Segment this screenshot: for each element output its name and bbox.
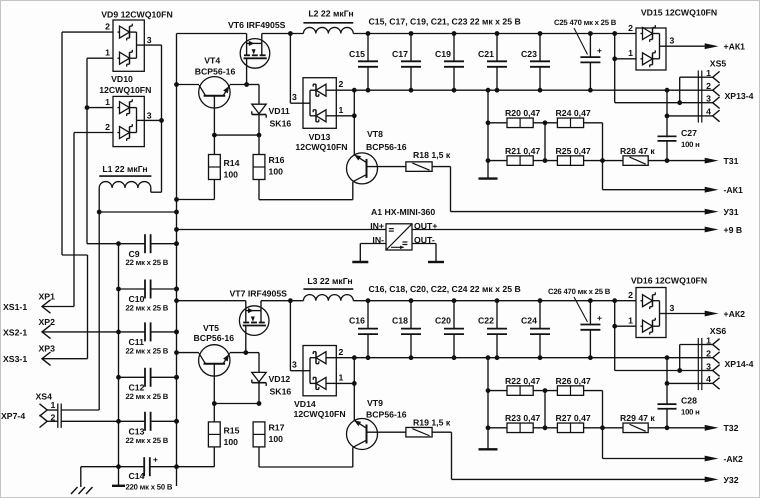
wire VD9/VD10 pin3 to L1 right	[144, 44, 161, 46]
svg-text:C15, C17, C19, C21, C23 22 мк: C15, C17, C19, C21, C23 22 мк x 25 В	[369, 17, 521, 27]
svg-text:3: 3	[706, 94, 711, 104]
capacitor C23	[539, 34, 541, 62]
svg-text:+: +	[597, 313, 602, 323]
svg-text:1: 1	[51, 400, 56, 410]
mid rail (top section minus)	[336, 89, 702, 91]
diode VD11 SK16	[258, 85, 260, 105]
chassis ground	[81, 466, 119, 468]
svg-text:1: 1	[628, 48, 633, 58]
transistor VT9 BCP56-16	[347, 419, 378, 450]
wire R24/R25 to -AK1	[602, 123, 604, 190]
svg-text:XS1-1: XS1-1	[3, 302, 27, 312]
wire VD16 pin1 net	[612, 298, 617, 303]
svg-text:+: +	[153, 454, 158, 464]
svg-text:3: 3	[147, 35, 152, 45]
svg-text:1: 1	[706, 335, 711, 345]
wire bottom rail to VD16	[353, 300, 636, 302]
svg-text:XS6: XS6	[710, 326, 727, 336]
svg-text:1: 1	[628, 316, 633, 326]
wire VT6 drain to L2	[262, 33, 304, 35]
svg-text:2: 2	[339, 347, 344, 357]
wire VT6 gate	[246, 58, 248, 84]
module A1 HX-MINI-360	[386, 224, 412, 250]
wire VD9 pin2 to XP3 net	[62, 31, 113, 33]
capacitor C18	[410, 301, 412, 329]
wire R14 bottom to bus	[213, 180, 215, 200]
capacitor C15	[367, 34, 369, 62]
resistor R15 100	[208, 422, 220, 447]
svg-text:У32: У32	[724, 475, 739, 485]
svg-text:R15: R15	[224, 426, 240, 436]
svg-text:C25 470 мк x 25 В: C25 470 мк x 25 В	[554, 18, 617, 27]
diode pair VD13 12CWQ10FN	[289, 34, 291, 104]
svg-text:VD15 12CWQ10FN: VD15 12CWQ10FN	[641, 8, 717, 18]
wire IN- to ground	[360, 243, 386, 245]
capacitor C28 100n	[658, 403, 677, 405]
svg-text:4: 4	[706, 107, 711, 117]
svg-text:R16: R16	[269, 155, 285, 165]
svg-text:XP13-4: XP13-4	[725, 91, 754, 101]
capacitor C21	[496, 34, 498, 62]
resistor R17 100	[253, 422, 265, 447]
capacitor C20	[453, 301, 455, 329]
wire VT7 gate	[245, 326, 247, 353]
svg-text:C16, C18, C20, C22, C24 22 мк: C16, C18, C20, C22, C24 22 мк x 25 В	[369, 284, 521, 294]
svg-text:XS2-1: XS2-1	[3, 327, 27, 337]
capacitor C11 22uF 25V	[119, 331, 146, 333]
svg-text:2: 2	[105, 22, 110, 32]
capacitor C14 220uF 50V	[119, 466, 145, 468]
svg-text:BCP56-16: BCP56-16	[195, 67, 236, 77]
svg-text:A1 HX-MINI-360: A1 HX-MINI-360	[371, 207, 435, 217]
svg-text:+АК1: +АК1	[724, 42, 746, 52]
transistor VT7 IRF4905S	[239, 306, 269, 336]
svg-text:2: 2	[51, 412, 56, 422]
svg-text:R22 0,47: R22 0,47	[505, 376, 540, 386]
connector XP3 / XS3-1	[42, 352, 51, 365]
wire R19 to U32	[432, 431, 451, 433]
svg-text:C27: C27	[681, 128, 697, 138]
svg-text:2: 2	[628, 23, 633, 33]
svg-text:R17: R17	[269, 423, 285, 433]
svg-text:BCP56-16: BCP56-16	[366, 142, 407, 152]
capacitor C22	[496, 301, 498, 329]
connector XS5 / XP13-4	[697, 71, 699, 123]
svg-text:22 мк x 25 В: 22 мк x 25 В	[126, 304, 169, 313]
svg-text:VD14: VD14	[294, 399, 316, 409]
transistor VT8 BCP56-16	[347, 153, 378, 184]
svg-text:SK16: SK16	[270, 387, 292, 397]
wire VT5 base down	[213, 364, 215, 422]
svg-text:R24 0,47: R24 0,47	[556, 108, 591, 118]
svg-text:100: 100	[269, 167, 284, 177]
wire bottom rail left	[177, 300, 246, 302]
svg-text:C17: C17	[392, 49, 408, 59]
resistor R18 1.5k	[406, 162, 432, 172]
svg-text:L2 22 мкГн: L2 22 мкГн	[308, 9, 353, 19]
transistor VT6 IRF4905S	[240, 39, 270, 69]
output -AK2	[603, 458, 706, 460]
svg-text:2: 2	[706, 81, 711, 91]
capacitor C9 22uF 25V	[119, 243, 146, 245]
connector XS4 / XP7-4	[40, 404, 48, 416]
resistor R29 47k	[603, 427, 624, 429]
capacitor C19	[453, 34, 455, 62]
svg-text:R21 0,47: R21 0,47	[505, 146, 540, 156]
wire VD10 pin2 to XP1	[74, 132, 113, 134]
diode VD12 SK16	[258, 353, 260, 373]
svg-text:1: 1	[339, 373, 344, 383]
svg-text:4: 4	[706, 374, 711, 384]
resistor R24 0.47	[533, 122, 557, 124]
svg-text:1: 1	[339, 105, 344, 115]
wire L1 left to bus	[97, 210, 102, 215]
svg-text:12CWQ10FN: 12CWQ10FN	[294, 409, 346, 419]
svg-text:R23 0,47: R23 0,47	[505, 413, 540, 423]
connector XP2 / XS2-1	[42, 325, 51, 338]
resistor R23 0.47	[488, 427, 507, 429]
svg-text:BCP56-16: BCP56-16	[194, 333, 235, 343]
svg-text:3: 3	[292, 360, 297, 370]
svg-text:12CWQ10FN: 12CWQ10FN	[295, 142, 347, 152]
output +AK1	[666, 45, 705, 47]
transistor VT4 BCP56-16	[199, 77, 230, 108]
ground bar of bus	[112, 485, 125, 487]
svg-text:2: 2	[706, 349, 711, 359]
diode pair VD9 12CWQ10FN	[113, 20, 144, 71]
svg-text:C26 470 мк x 25 В: C26 470 мк x 25 В	[548, 287, 611, 296]
svg-text:22 мк x 25 В: 22 мк x 25 В	[126, 346, 169, 355]
wire R15 bottom to bus	[213, 447, 215, 467]
capacitor C26 470uF	[589, 301, 591, 325]
svg-text:3: 3	[670, 303, 675, 313]
svg-text:R25 0,47: R25 0,47	[556, 146, 591, 156]
svg-text:VD13: VD13	[309, 132, 331, 142]
svg-text:SK16: SK16	[270, 118, 292, 128]
svg-text:C28: C28	[681, 396, 697, 406]
svg-text:L3 22 мкГн: L3 22 мкГн	[307, 276, 352, 286]
diode pair VD15 12CWQ10FN	[636, 28, 666, 70]
resistor R25 0.47	[533, 160, 557, 162]
capacitor C16	[367, 301, 369, 329]
svg-text:C16: C16	[349, 316, 365, 326]
svg-text:R29 47 к: R29 47 к	[620, 413, 655, 423]
svg-text:C23: C23	[521, 49, 537, 59]
wire top rail to VD15	[353, 33, 636, 35]
wire OUT- to ground	[412, 243, 436, 245]
wire R26/R27 to -AK2	[602, 391, 604, 459]
svg-text:VD10: VD10	[111, 74, 133, 84]
svg-text:Т32: Т32	[724, 423, 739, 433]
svg-text:+АК2: +АК2	[724, 309, 746, 319]
diode pair VD16 12CWQ10FN	[636, 288, 666, 338]
svg-text:1: 1	[706, 68, 711, 78]
svg-text:C24: C24	[521, 316, 537, 326]
svg-text:VD9 12CWQ10FN: VD9 12CWQ10FN	[101, 10, 172, 20]
svg-text:22 мк x 25 В: 22 мк x 25 В	[126, 436, 169, 445]
svg-text:R20 0,47: R20 0,47	[505, 108, 540, 118]
svg-text:2: 2	[628, 290, 633, 300]
svg-text:XS5: XS5	[710, 58, 727, 68]
svg-text:VD12: VD12	[269, 374, 291, 384]
resistor R20 0.47	[488, 122, 507, 124]
svg-text:C18: C18	[392, 316, 408, 326]
svg-text:220 мк x 50 В: 220 мк x 50 В	[126, 483, 173, 492]
capacitor C13 22uF 25V	[119, 420, 146, 422]
svg-text:XP14-4: XP14-4	[725, 359, 754, 369]
resistor R19 1.5k	[406, 427, 432, 437]
output U32	[452, 478, 706, 480]
diode pair VD10 12CWQ10FN	[113, 96, 144, 146]
svg-text:-АК1: -АК1	[724, 185, 743, 195]
resistor R21 0.47	[488, 160, 507, 162]
svg-text:L1 22 мкГн: L1 22 мкГн	[102, 164, 147, 174]
svg-text:+: +	[597, 46, 602, 56]
svg-text:22 мк x 25 В: 22 мк x 25 В	[126, 392, 169, 401]
capacitor C12 22uF 25V	[119, 376, 146, 378]
svg-text:100: 100	[224, 170, 239, 180]
wire VD15 pin1 net	[612, 31, 617, 36]
svg-text:100 н: 100 н	[681, 140, 700, 149]
output +AK2	[666, 313, 705, 315]
wire left cap bus	[118, 244, 120, 486]
svg-text:C22: C22	[478, 316, 494, 326]
svg-text:-АК2: -АК2	[724, 454, 743, 464]
resistor network vertical (bottom)	[487, 358, 489, 450]
output T32	[665, 425, 670, 430]
wire main bus vertical	[176, 34, 178, 487]
svg-text:1: 1	[105, 48, 110, 58]
wire VD14 pins to VT9	[352, 355, 357, 360]
svg-text:C15: C15	[349, 49, 365, 59]
svg-text:XP1: XP1	[39, 292, 56, 302]
resistor R28 47k	[603, 160, 624, 162]
svg-text:R26 0,47: R26 0,47	[556, 376, 591, 386]
svg-text:BCP56-16: BCP56-16	[366, 410, 407, 420]
svg-text:VT8: VT8	[367, 129, 383, 139]
connector XP1 / XS1-1	[42, 300, 51, 313]
svg-text:Т31: Т31	[724, 156, 739, 166]
svg-text:R18 1,5 к: R18 1,5 к	[413, 150, 451, 160]
svg-text:3: 3	[670, 36, 675, 46]
svg-text:R27 0,47: R27 0,47	[556, 413, 591, 423]
wire VD13 pin1 to VT8	[336, 115, 354, 117]
capacitor C25 470uF	[589, 34, 591, 58]
resistor R22 0.47	[488, 390, 507, 392]
svg-text:C21: C21	[478, 49, 494, 59]
wire VD9 pin1 / VD10 pin1 net	[87, 57, 113, 59]
svg-text:C20: C20	[435, 316, 451, 326]
wire IN+ line	[177, 229, 387, 231]
svg-text:100 н: 100 н	[681, 408, 700, 417]
svg-text:XS3-1: XS3-1	[3, 354, 27, 364]
svg-text:3: 3	[147, 111, 152, 121]
mid rail (bottom section minus)	[336, 357, 702, 359]
svg-text:R19 1,5 к: R19 1,5 к	[413, 418, 451, 428]
output U31	[451, 211, 706, 213]
output +9V	[412, 229, 705, 231]
diode pair VD14 12CWQ10FN	[289, 301, 291, 371]
wire XS6 pin1 to pin3	[680, 344, 702, 346]
svg-text:100: 100	[224, 437, 239, 447]
svg-text:VT5: VT5	[203, 323, 219, 333]
wire R17 bottom to VT9 collector	[258, 447, 260, 467]
capacitor C17	[410, 34, 412, 62]
svg-text:VD11: VD11	[269, 106, 290, 116]
svg-text:12CWQ10FN: 12CWQ10FN	[99, 85, 151, 95]
svg-text:1: 1	[105, 97, 110, 107]
capacitor C24	[539, 301, 541, 329]
wire VT4 base down	[213, 96, 215, 155]
svg-text:VT9: VT9	[367, 398, 383, 408]
svg-text:2: 2	[105, 122, 110, 132]
output T31	[665, 158, 670, 163]
resistor R16 100	[258, 135, 260, 154]
svg-text:2: 2	[339, 79, 344, 89]
svg-text:R28 47 к: R28 47 к	[620, 146, 655, 156]
svg-text:XP7-4: XP7-4	[1, 411, 25, 421]
svg-text:+9 В: +9 В	[724, 225, 743, 235]
wire R18 to U31	[432, 166, 450, 168]
svg-text:R14: R14	[224, 158, 240, 168]
svg-text:VT7 IRF4905S: VT7 IRF4905S	[230, 289, 288, 299]
wire top rail left	[177, 33, 247, 35]
wire VD13 pin2 to mid rail	[352, 88, 357, 93]
resistor network vertical (top)	[487, 90, 489, 178]
transistor VT5 BCP56-16	[199, 345, 230, 376]
svg-text:C14: C14	[129, 471, 145, 481]
svg-text:100: 100	[269, 434, 284, 444]
wire XS4 pin1 to L1	[98, 212, 100, 410]
svg-text:VT6 IRF4905S: VT6 IRF4905S	[228, 20, 286, 30]
svg-text:C19: C19	[435, 49, 451, 59]
resistor R27 0.47	[533, 427, 557, 429]
svg-text:3: 3	[706, 361, 711, 371]
wire XS6 pin4 / C28	[665, 355, 670, 360]
resistor R26 0.47	[533, 390, 557, 392]
wire R16 bottom to VT8 collector	[258, 180, 260, 200]
svg-text:У31: У31	[724, 207, 739, 217]
output -AK1	[603, 189, 706, 191]
svg-text:22 мк x 25 В: 22 мк x 25 В	[126, 258, 169, 267]
resistor R14 100	[209, 155, 221, 180]
svg-text:XP2: XP2	[39, 317, 56, 327]
svg-text:VD16 12CWQ10FN: VD16 12CWQ10FN	[631, 276, 707, 286]
wire XS5 pin1 to pin3	[680, 76, 702, 78]
svg-text:3: 3	[292, 92, 297, 102]
capacitor C27 100n	[658, 135, 677, 137]
capacitor C10 22uF 25V	[119, 288, 146, 290]
svg-text:XP3: XP3	[39, 344, 56, 354]
wire XS5 pin4 / C27	[665, 88, 670, 93]
connector XS6 / XP14-4	[697, 338, 699, 390]
svg-text:VT4: VT4	[204, 56, 220, 66]
wire VT7 drain to L3	[261, 300, 303, 302]
